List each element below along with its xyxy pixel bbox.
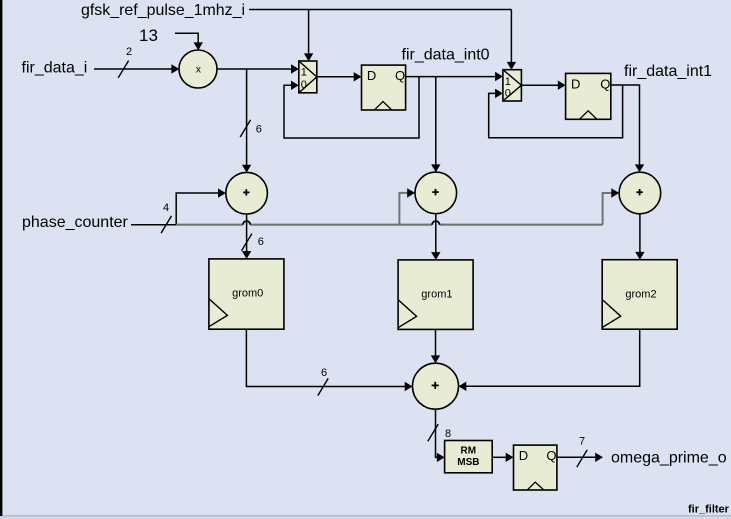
wire branch fir_data_int0 down to adder A2 xyxy=(431,77,440,173)
wire adder A1 output to grom0 xyxy=(242,214,264,259)
svg-text:Q: Q xyxy=(395,68,405,83)
svg-text:0: 0 xyxy=(505,87,511,99)
wire gfsk_ref_pulse_1mhz_i horizontal xyxy=(249,9,511,11)
flip-flop U5 xyxy=(514,445,557,490)
wire grom0 output to adder A4 xyxy=(246,329,412,395)
bus slash width 6 xyxy=(240,120,250,137)
multiplier M1 xyxy=(179,50,217,88)
wire fir_data_int1 from U4 Q down to adder A3 xyxy=(611,85,644,172)
flip-flop U4 xyxy=(566,73,611,119)
wire adder A2 output to grom1 xyxy=(431,214,440,260)
wire RM MSB to flip-flop U5 D xyxy=(492,453,513,462)
svg-text:MSB: MSB xyxy=(457,457,479,468)
wire branch multiplier output down to adder A1 xyxy=(240,69,262,173)
svg-text:grom2: grom2 xyxy=(625,288,656,300)
svg-text:Q: Q xyxy=(600,77,610,92)
adder A4 xyxy=(413,363,459,409)
wire feedback U2 Q to mux U1 input 0 xyxy=(284,77,419,138)
svg-text:1: 1 xyxy=(505,76,511,88)
wire grom2 output to adder A4 xyxy=(459,329,640,391)
svg-text:D: D xyxy=(571,77,580,92)
wire mux U3 output to flip-flop U4 D xyxy=(521,81,565,90)
bottom window edge strip xyxy=(0,516,731,519)
adder A1 xyxy=(226,172,268,214)
flip-flop U2 xyxy=(362,65,406,110)
svg-text:omega_prime_o: omega_prime_o xyxy=(611,450,727,467)
svg-text:phase_counter: phase_counter xyxy=(22,214,129,231)
adder A3 xyxy=(619,172,661,214)
svg-text:7: 7 xyxy=(579,436,585,448)
svg-text:6: 6 xyxy=(321,367,327,379)
svg-text:fir_filter: fir_filter xyxy=(688,504,730,516)
svg-text:13: 13 xyxy=(139,26,158,45)
block RM MSB slicer xyxy=(445,441,493,473)
wire gfsk branch down to mux U1 select xyxy=(304,10,313,62)
svg-text:RM: RM xyxy=(461,446,477,457)
wire hop adder A1 output over phase net xyxy=(243,221,250,225)
svg-text:1: 1 xyxy=(301,67,307,79)
mux U1 xyxy=(299,61,317,93)
wire constant 13 to multiplier xyxy=(175,33,203,50)
bus slash width 2 xyxy=(118,61,128,78)
wire grom1 output to adder A4 xyxy=(431,329,440,363)
wire mux U1 output to flip-flop U2 D xyxy=(317,72,362,81)
mux U3 xyxy=(503,70,522,101)
svg-text:D: D xyxy=(519,448,528,463)
svg-text:D: D xyxy=(367,68,376,83)
svg-text:x: x xyxy=(196,63,202,75)
block grom0 xyxy=(209,259,284,329)
svg-text:fir_data_int1: fir_data_int1 xyxy=(624,63,712,80)
svg-text:6: 6 xyxy=(256,123,262,135)
bus slash width 4 xyxy=(161,216,171,233)
wire adder A4 output to RM MSB xyxy=(428,409,451,462)
wire fir_data_i to multiplier xyxy=(94,46,179,78)
wire feedback U4 Q to mux U3 input 0 xyxy=(489,85,623,138)
svg-text:Q: Q xyxy=(546,448,556,463)
bus slash width 8 xyxy=(428,424,438,441)
block grom1 xyxy=(398,260,473,330)
wire phase riser to adder A3 xyxy=(603,188,620,224)
wire phase_counter to adder A1 xyxy=(131,188,226,233)
bus slash width 6 xyxy=(318,378,328,395)
svg-text:grom1: grom1 xyxy=(421,289,452,301)
wire fir_data_int0 from U2 Q to mux U3 input 1 xyxy=(406,72,503,81)
svg-text:grom0: grom0 xyxy=(232,288,263,300)
wire phase riser to adder A2 xyxy=(399,188,415,225)
svg-text:8: 8 xyxy=(445,428,451,440)
wire hop adder A2 output over phase net xyxy=(432,221,439,225)
svg-text:gfsk_ref_pulse_1mhz_i: gfsk_ref_pulse_1mhz_i xyxy=(81,2,245,19)
block grom2 xyxy=(602,260,677,330)
bus slash width 6 xyxy=(242,234,252,251)
left page border xyxy=(0,0,2,516)
wire adder A3 output to grom2 xyxy=(635,214,644,260)
svg-text:4: 4 xyxy=(163,202,169,214)
bus slash width 7 xyxy=(577,450,587,467)
svg-text:fir_data_int0: fir_data_int0 xyxy=(402,47,490,64)
wire multiplier output to mux U1 input 1 xyxy=(217,64,299,73)
wire gfsk down to mux U3 select xyxy=(507,10,516,70)
adder A2 xyxy=(415,172,457,214)
svg-text:0: 0 xyxy=(301,79,307,91)
svg-text:fir_data_i: fir_data_i xyxy=(22,60,88,77)
svg-text:2: 2 xyxy=(126,46,132,58)
svg-text:6: 6 xyxy=(258,236,264,248)
gray net phase_counter across xyxy=(176,224,602,226)
wire U5 Q to omega_prime_o xyxy=(557,436,603,468)
